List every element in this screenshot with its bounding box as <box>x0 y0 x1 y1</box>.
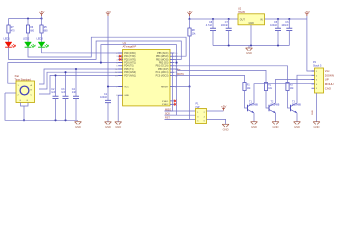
wire T1 collector to connector pin 4 <box>254 84 315 103</box>
wire crystal bottom pins to ground rail <box>21 103 29 107</box>
U1 pin 8 GND <box>118 94 122 96</box>
capacitor C7 100nF <box>226 27 232 29</box>
svg-text:PB3 (MOSI): PB3 (MOSI) <box>156 59 169 61</box>
svg-text:GND: GND <box>251 125 257 129</box>
transistor T2 BC548B <box>268 105 270 111</box>
U1 right pin 16 PB2 (SS) <box>170 62 175 64</box>
U1 right pin 18 PB4 (MISO) <box>170 55 175 57</box>
junction <box>277 18 279 20</box>
P2 pin 4 <box>312 83 315 85</box>
svg-text:PD2 (INT0): PD2 (INT0) <box>124 59 136 61</box>
svg-text:+5V: +5V <box>39 10 44 14</box>
svg-text:GND: GND <box>273 125 279 129</box>
transistor T3 BC548B <box>290 105 292 111</box>
ground (ISP) <box>222 124 229 127</box>
junction <box>27 17 29 19</box>
wire to C8 <box>212 19 214 28</box>
svg-text:GND: GND <box>223 128 229 132</box>
ground (regulator) <box>246 48 253 51</box>
wire rail to resistor R7 <box>8 19 10 26</box>
svg-text:GND: GND <box>105 125 111 129</box>
svg-text:4.7uF: 4.7uF <box>206 24 213 27</box>
wire LED supply rail <box>9 18 42 20</box>
wire bus to capacitor C3 <box>65 72 67 96</box>
svg-text:BC548B: BC548B <box>271 104 280 107</box>
svg-text:Stack 5: Stack 5 <box>313 64 322 67</box>
power +5V (VCC) <box>107 14 110 16</box>
power +5V (ISP) <box>222 108 225 110</box>
wire R1 to T1 base <box>245 91 248 109</box>
P2 pin 3 <box>312 79 315 81</box>
capacitor C8 4.7uF <box>210 27 216 29</box>
svg-text:GND: GND <box>294 125 300 129</box>
wire C4 to ground rail <box>75 99 77 121</box>
svg-text:OUT: OUT <box>240 19 246 22</box>
wire R5 to LED3 segment <box>41 33 43 42</box>
svg-text:BC548B: BC548B <box>292 104 301 107</box>
svg-text:LED3: LED3 <box>37 38 44 41</box>
svg-text:78L05: 78L05 <box>238 11 246 14</box>
wire branch to U1 VCC pin <box>108 86 123 88</box>
svg-text:1nF: 1nF <box>72 91 77 94</box>
resistor R6 680 <box>26 25 29 33</box>
capacitor C3 1nF <box>63 95 69 97</box>
svg-text:100nF: 100nF <box>100 96 108 99</box>
resistor R1 10k <box>243 83 246 91</box>
junction <box>23 119 25 121</box>
svg-text:LED2: LED2 <box>23 38 30 41</box>
svg-text:BC548B: BC548B <box>249 104 258 107</box>
svg-text:ATmega8-P: ATmega8-P <box>123 45 137 49</box>
svg-text:100nF: 100nF <box>270 24 278 27</box>
resistor R3 10k <box>286 83 289 91</box>
wire U1 SCK to ISP pin 1 <box>165 53 173 111</box>
U1 pin 9 XTAL1 <box>170 100 175 102</box>
svg-text:PD5 (T1): PD5 (T1) <box>124 69 134 71</box>
wire C3 to ground rail <box>65 99 67 121</box>
wire C2 to ground rail <box>55 99 57 121</box>
wire below LED1 <box>8 47 10 48</box>
wire T3 collector to connector pin 2 <box>297 75 315 103</box>
wire +5V down to C1 and VCC <box>107 16 109 100</box>
svg-text:PB1 (OC1A): PB1 (OC1A) <box>156 65 169 68</box>
resistor R2 10k <box>264 83 267 91</box>
svg-text:GND: GND <box>314 125 320 129</box>
wire to C5 <box>277 19 279 28</box>
junction <box>100 62 102 64</box>
P2 pin 5 <box>312 87 315 89</box>
wire regulator GND pin <box>250 25 252 46</box>
svg-text:PD1 (TXD): PD1 (TXD) <box>124 56 135 58</box>
wire LED3 to U1 pin row 1 <box>42 49 123 53</box>
capacitor C5 100nF <box>275 27 281 29</box>
svg-text:GND: GND <box>246 51 252 55</box>
capacitor C1 100nF <box>105 99 111 101</box>
svg-text:PC0 (ADC0): PC0 (ADC0) <box>156 74 169 77</box>
svg-text:+5V: +5V <box>221 104 226 108</box>
ground (connector GND) <box>313 122 320 125</box>
wire U1 GND pin to ground <box>117 95 119 122</box>
svg-text:+5V: +5V <box>187 10 192 14</box>
svg-text:PD3 (INT1): PD3 (INT1) <box>124 63 136 65</box>
svg-text:XTAL1: XTAL1 <box>162 100 169 103</box>
svg-text:RESET: RESET <box>161 86 169 88</box>
svg-text:PD7 (AIN1): PD7 (AIN1) <box>124 74 136 77</box>
wire below LED3 <box>41 47 43 48</box>
ground (left rail) <box>75 122 82 125</box>
svg-text:CAO: CAO <box>325 86 332 90</box>
wire to ground symbol <box>248 46 250 49</box>
U1 left pin 3 PD1 (TXD) <box>118 55 122 57</box>
wire ISP GND <box>207 119 226 124</box>
wire LED2 arc over U1 to right row 2 <box>28 37 186 57</box>
wire to C6 <box>288 19 290 28</box>
ground (U1 GND) <box>115 122 122 125</box>
junction <box>64 71 66 73</box>
junction <box>54 74 56 76</box>
wire bottom ground rail <box>5 93 78 120</box>
wire R7 to LED1 segment <box>8 33 10 42</box>
wire T2 emitter to ground <box>275 113 277 122</box>
wire connector bottom to ground <box>316 93 318 122</box>
svg-text:100nF: 100nF <box>281 24 289 27</box>
junction <box>75 68 77 70</box>
wire C1 to ground <box>107 103 109 122</box>
svg-text:MISO: MISO <box>165 108 171 111</box>
power +5V (stack connector) <box>305 14 308 16</box>
U1 right pin 14 PB0 (ICP) <box>170 68 175 70</box>
wire bus to capacitor C2 <box>55 75 57 96</box>
svg-text:GND: GND <box>312 110 314 115</box>
resistor R8 10k pullup <box>188 28 191 36</box>
svg-text:PB4 (MISO): PB4 (MISO) <box>156 56 169 58</box>
svg-text:PD0 (RXD): PD0 (RXD) <box>124 53 136 55</box>
capacitor C2 1nF <box>53 95 59 97</box>
transistor T1 BC548B <box>247 105 249 111</box>
junction <box>107 85 109 87</box>
no-connect marks U1 left <box>119 55 122 58</box>
wire crystal left pin 2 <box>5 92 16 94</box>
wire R8 down to RESET net <box>189 36 191 87</box>
svg-text:LED1: LED1 <box>4 38 11 41</box>
svg-text:IN: IN <box>260 19 263 22</box>
ground (C1) <box>105 122 112 125</box>
svg-text:+5V: +5V <box>105 10 110 14</box>
svg-text:1nF: 1nF <box>51 91 56 94</box>
resistor R7 470 <box>7 25 10 33</box>
wire +5V to R8 <box>189 19 191 28</box>
U1 left pin 2 PD0 (RXD) <box>118 52 122 54</box>
svg-text:SCK: SCK <box>165 113 170 116</box>
svg-text:GND: GND <box>115 125 121 129</box>
wire U1 row 4 to crystal pin 1 <box>8 63 123 84</box>
wire regulator output rail <box>190 18 239 20</box>
wire bus to capacitor C4 <box>75 69 77 96</box>
U1 left pin 4 PD2 (INT0) <box>118 58 122 60</box>
svg-text:RST: RST <box>165 117 170 120</box>
wire ISP VCC to +5V <box>207 110 224 112</box>
svg-text:VCC: VCC <box>124 86 129 88</box>
capacitor C4 1nF <box>73 95 79 97</box>
wire U1 RESET pin to R8 and ISP RST <box>175 86 190 88</box>
P2 pin 2 <box>312 74 315 76</box>
U1 pin 1 RESET <box>170 86 175 88</box>
power +5V (regulator output) <box>188 14 191 16</box>
wire +5V down to connector pin 1 <box>307 16 315 71</box>
U1 pin 7 VCC <box>118 86 122 88</box>
ground (T2) <box>272 122 279 125</box>
svg-text:PB0 (ICP): PB0 (ICP) <box>158 69 169 71</box>
svg-text:GND: GND <box>249 22 255 25</box>
junction <box>188 18 190 20</box>
wire U1 row to R3 <box>175 66 288 83</box>
U1 pin 10 XTAL2 <box>170 103 175 105</box>
wire regulator ground rail <box>213 45 289 47</box>
wire below LED2 <box>27 47 29 48</box>
wire crystal right pin B to bus row 7 <box>39 72 123 89</box>
wire R6 to LED2 segment <box>27 33 29 42</box>
U1 right pin 17 PB3 (MOSI) <box>170 58 175 60</box>
svg-text:PC1 (ADC1): PC1 (ADC1) <box>156 71 169 74</box>
wire crystal net arc over U1 to right row 4 and ISP pin 3 <box>101 45 177 116</box>
wire T2 collector to connector pin 3 <box>276 79 315 103</box>
junction <box>228 44 230 46</box>
svg-text:1nF: 1nF <box>61 91 66 94</box>
wire crystal right pin A to bus row 6 <box>39 69 123 84</box>
junction <box>212 18 214 20</box>
wire to C7 <box>228 19 230 28</box>
junction <box>54 119 56 121</box>
capacitor C6 100nF <box>286 27 292 29</box>
wire rail to resistor R6 <box>27 19 29 26</box>
U1 left pin 5 PD3 (INT1) <box>118 62 122 64</box>
wire T3 emitter to ground <box>296 113 298 122</box>
U1 left pin 6 PD4 (T0) <box>118 65 122 67</box>
svg-text:GND: GND <box>75 125 81 129</box>
junction <box>188 85 190 87</box>
wire U1 row to R1 <box>175 75 245 82</box>
svg-text:PB2 (SS): PB2 (SS) <box>159 63 169 65</box>
svg-text:GND: GND <box>124 95 129 97</box>
P2 pin 1 <box>312 70 315 72</box>
wire R3 to T3 base <box>288 91 291 109</box>
wire rail to resistor R5 <box>41 19 43 26</box>
wire R2 to T2 base <box>266 91 269 109</box>
wire crystal right pin C to bus row 8 <box>39 75 123 94</box>
svg-text:PD6 (AIN0): PD6 (AIN0) <box>124 71 136 74</box>
wire T1 emitter to ground <box>253 113 255 122</box>
no-connect marks U1 right <box>174 100 177 103</box>
U1 left pin 13 PD7 (AIN1) <box>118 74 122 76</box>
U1 right pin 23 PC0 (ADC0) <box>170 74 175 76</box>
svg-text:XTAL2: XTAL2 <box>162 103 169 106</box>
svg-text:PD4 (T0): PD4 (T0) <box>124 66 134 68</box>
svg-text:100nF: 100nF <box>221 24 229 27</box>
svg-text:PB5 (SCK): PB5 (SCK) <box>157 53 168 55</box>
svg-text:+5V: +5V <box>304 10 309 14</box>
U1 right pin 15 PB1 (OC1A) <box>170 65 175 67</box>
U1 left pin 12 PD6 (AIN0) <box>118 71 122 73</box>
ground (T1) <box>251 122 258 125</box>
U1 right pin 24 PC1 (ADC1) <box>170 71 175 73</box>
wire regulator input rail <box>265 18 307 20</box>
power +5V (LED rail) <box>40 14 43 16</box>
wire U1 row to R2 <box>175 69 267 83</box>
ground (T3) <box>294 122 301 125</box>
U1 left pin 11 PD5 (T1) <box>118 68 122 70</box>
U1 right pin 19 PB5 (SCK) <box>170 52 175 54</box>
wire LED1 arc over U1 to right row 3 <box>9 41 182 59</box>
resistor R5 680 <box>40 25 43 33</box>
